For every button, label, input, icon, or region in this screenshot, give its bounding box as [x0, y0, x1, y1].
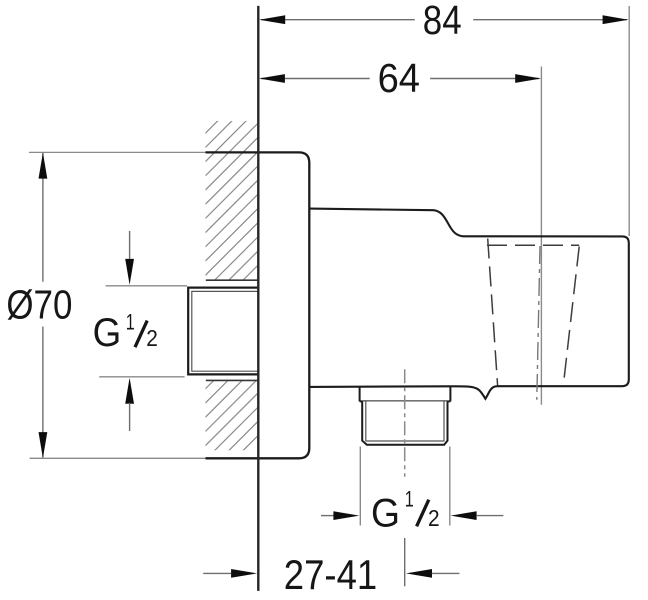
outlet G1/2: left arrow tail [321, 515, 335, 517]
outlet G1/2: left arrowhead [333, 511, 359, 520]
wall pipe G1/2: top extension line [106, 285, 187, 287]
escutcheon plate [258, 152, 309, 458]
dimension 27-41: left arrowhead [231, 569, 257, 578]
outlet centre line [404, 369, 406, 477]
dimension 27-41: right arrowhead [406, 569, 432, 578]
svg-text:G: G [371, 492, 400, 536]
wall pipe (G1/2 tail) outline [188, 288, 258, 375]
dimension 84: left arrowhead [259, 15, 285, 24]
svg-text:27-41: 27-41 [284, 551, 377, 598]
holder cone top hidden line [487, 244, 579, 246]
svg-text:2: 2 [428, 505, 440, 531]
svg-text:1: 1 [126, 309, 135, 334]
wall hole lower edge [206, 379, 258, 381]
dimension 84: dimension line [261, 19, 627, 21]
escutcheon bottom edge into wall [206, 457, 259, 459]
outlet flange right edge [449, 387, 451, 402]
dimension 64: extension line right [540, 67, 542, 405]
wall pipe G1/2: upper arrow tail [129, 231, 131, 261]
dimension D70: top arrowhead [39, 153, 48, 179]
dimension 84: right arrowhead [603, 15, 629, 24]
svg-text:84: 84 [423, 0, 462, 43]
holder cone left hidden line [488, 239, 498, 386]
dimension 64: left arrowhead [259, 74, 285, 83]
wall hole upper edge [206, 279, 258, 281]
wall pipe G1/2: lower arrow tail [129, 403, 131, 431]
dimension 27-41: right boundary line [404, 538, 406, 586]
outlet thread inner lines [366, 401, 444, 441]
svg-text:2: 2 [146, 325, 158, 351]
dimension D70: bottom arrowhead [39, 432, 48, 458]
dimension 64: right arrowhead [515, 74, 541, 83]
dimension 84: extension line right [628, 6, 630, 236]
svg-text:Ø70: Ø70 [6, 282, 72, 328]
escutcheon top edge into wall [206, 151, 259, 153]
dimension 64: dimension line [261, 78, 539, 80]
dimension D70: bottom extension line [30, 457, 207, 459]
body outline [309, 209, 629, 399]
dimension D70: top extension line [29, 151, 207, 153]
wall pipe G1/2: upper arrowhead (down) [125, 259, 134, 285]
holder cone right hidden line [563, 247, 579, 386]
outlet thread outline [362, 401, 447, 444]
wall pipe G1/2: label slash [135, 321, 147, 348]
outlet flange bottom line [360, 400, 451, 402]
wall hatch section [196, 62, 262, 497]
outlet G1/2: label slash [417, 500, 429, 527]
svg-text:1: 1 [405, 487, 414, 512]
wall pipe G1/2: bottom extension line [99, 376, 184, 378]
dimension 27-41: right arrow tail [432, 572, 460, 574]
wall face line [257, 6, 259, 591]
dimension D70: dimension line lower part [42, 327, 44, 458]
svg-text:64: 64 [378, 55, 420, 101]
svg-text:G: G [93, 311, 122, 355]
holder cone centre line [537, 246, 540, 400]
outlet G1/2: right extension line [449, 447, 451, 526]
dimension D70: dimension line upper part [42, 153, 44, 282]
outlet G1/2: right arrowhead [451, 511, 477, 520]
outlet G1/2: right arrow tail [476, 515, 503, 517]
outlet G1/2: left extension line [359, 447, 361, 526]
dimension 27-41: left arrow tail [203, 572, 232, 574]
wall pipe inner thread lines [192, 291, 258, 371]
wall pipe G1/2: lower arrowhead (up) [125, 378, 134, 404]
outlet flange left edge [359, 387, 361, 402]
